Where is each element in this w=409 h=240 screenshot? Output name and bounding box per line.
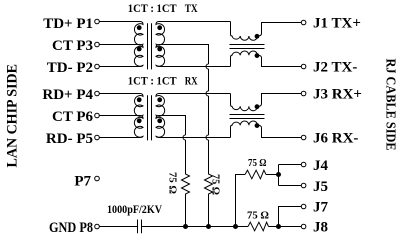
node J2 pin circle: [301, 64, 306, 69]
node J3 pin circle: [301, 91, 306, 96]
node P2 pin circle: [95, 64, 100, 69]
svg-text:CT P6: CT P6: [52, 109, 93, 125]
wire hop at (208,93.5): [206, 91, 209, 96]
svg-text:LAN CHIP SIDE: LAN CHIP SIDE: [5, 64, 21, 168]
svg-text:P7: P7: [74, 174, 91, 190]
svg-text:75 Ω: 75 Ω: [167, 172, 178, 194]
svg-text:75 Ω: 75 Ω: [248, 158, 267, 169]
node J1 pin circle: [301, 20, 306, 25]
wire hop at (208,66.5): [206, 64, 209, 69]
svg-text:1CT : 1CT: 1CT : 1CT: [128, 74, 177, 88]
svg-text:J8: J8: [313, 220, 328, 236]
choke L2 top winding with output to J3: [231, 94, 302, 111]
resistor R3 75ohm horizontal: [245, 170, 266, 179]
svg-text:RD+ P4: RD+ P4: [42, 87, 93, 103]
svg-text:J6 RX-: J6 RX-: [313, 131, 358, 147]
wire TX secondary top to choke L1: [159, 21, 231, 23]
svg-text:RJ CABLE SIDE: RJ CABLE SIDE: [384, 59, 399, 151]
node P8 pin circle: [95, 224, 100, 229]
svg-text:TD- P2: TD- P2: [47, 60, 93, 76]
svg-text:CT P3: CT P3: [52, 38, 93, 54]
wire RX center tap down with hop, resistor R1 75ohm vertical, to bus: [159, 116, 190, 227]
junction dots on bus and tees: [183, 172, 281, 229]
transformer T2 polarity dots: [137, 97, 162, 123]
choke L1 core: [230, 44, 265, 46]
svg-text:J5: J5: [313, 179, 328, 195]
choke L2 core: [230, 114, 265, 116]
svg-text:J3 RX+: J3 RX+: [313, 87, 362, 103]
wire TX secondary bottom to choke L1: [160, 66, 231, 68]
transformer T2 core: [147, 95, 149, 140]
transformer T1 secondary winding: [156, 22, 165, 45]
transformer T1 core: [147, 23, 149, 69]
transformer T1 primary winding (TD+/CT/TD-): [100, 22, 144, 45]
svg-text:RX: RX: [185, 74, 198, 88]
svg-text:TX: TX: [185, 1, 198, 15]
choke L2 bottom winding with output to J6: [231, 121, 302, 138]
node J5 pin circle: [301, 183, 306, 188]
node P4 pin circle: [95, 91, 100, 96]
wire resistor R3 to J4/J5 tee: [266, 165, 301, 186]
choke L1 polarity dots: [255, 34, 260, 58]
node P1 pin circle: [95, 19, 100, 24]
node J4 pin circle: [301, 162, 306, 167]
node P5 pin circle: [95, 135, 100, 140]
wire riser bus to resistor R3: [236, 175, 246, 227]
wire bus from capacitor to resistor R4: [142, 226, 248, 228]
resistor R4 75ohm horizontal (in bus): [248, 222, 269, 231]
svg-text:75 Ω: 75 Ω: [247, 211, 269, 222]
choke L1 bottom winding with output to J2: [231, 51, 302, 67]
svg-text:J2 TX-: J2 TX-: [313, 60, 357, 76]
svg-text:1000pF/2KV: 1000pF/2KV: [107, 204, 163, 216]
transformer T2 primary winding (RD+/CT/RD-): [100, 94, 144, 117]
svg-text:J4: J4: [313, 158, 329, 174]
node P7 pin circle: [95, 176, 100, 181]
svg-text:TD+ P1: TD+ P1: [43, 16, 93, 32]
node P3 pin circle: [95, 42, 100, 47]
svg-text:RD- P5: RD- P5: [46, 131, 93, 147]
wire hop at (208,137.5): [206, 135, 209, 140]
capacitor C1 1000pF/2KV plates: [137, 220, 139, 234]
transformer T2 secondary winding: [156, 94, 165, 117]
svg-text:GND P8: GND P8: [49, 220, 93, 236]
wire bus resistor R4 to J8: [269, 226, 302, 228]
wire hop at (185.5,137.5): [183, 135, 185, 140]
svg-text:75 Ω: 75 Ω: [210, 174, 221, 195]
choke L1 top winding with output to J1: [231, 22, 302, 41]
svg-text:J7: J7: [313, 200, 329, 216]
wire GND P8 to capacitor C1: [100, 226, 138, 228]
choke L2 polarity dots: [255, 104, 260, 128]
wire RX secondary bottom to choke L2: [160, 137, 231, 139]
wire RX secondary top to choke L2: [159, 93, 231, 95]
node J6 pin circle: [301, 135, 306, 140]
node J8 pin circle: [301, 224, 306, 229]
transformer T1 polarity dots: [137, 25, 162, 51]
svg-text:J1 TX+: J1 TX+: [313, 16, 361, 32]
node P6 pin circle: [95, 113, 100, 118]
wire J7/J8 tee from bus: [279, 207, 302, 227]
wire TX center tap down with hops, resistor R2 75ohm vertical, to bus: [159, 45, 213, 227]
svg-text:1CT : 1CT: 1CT : 1CT: [128, 1, 177, 15]
node J7 pin circle: [301, 204, 306, 209]
